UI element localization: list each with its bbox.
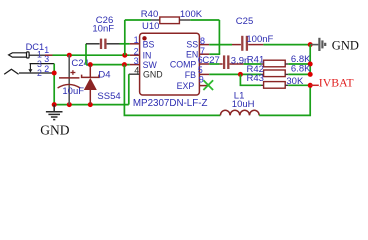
- svg-text:IVBAT: IVBAT: [319, 76, 355, 90]
- U10 pin 5 FB: [199, 73, 209, 75]
- svg-text:4: 4: [134, 65, 139, 75]
- node junction R42 GND: [308, 72, 313, 77]
- node junction C24 top: [67, 53, 72, 58]
- wire C26 left vertical: [85, 44, 87, 65]
- wire R40 loop right vertical to EN: [218, 20, 220, 54]
- node junction FB divider: [238, 72, 243, 77]
- svg-text:9: 9: [199, 74, 204, 84]
- svg-text:100K: 100K: [180, 9, 203, 20]
- svg-text:FB: FB: [185, 70, 196, 80]
- svg-text:2: 2: [44, 64, 49, 74]
- wire right GND column: [309, 45, 311, 75]
- U10 pin 6 COMP: [199, 63, 209, 65]
- svg-text:SW: SW: [143, 60, 158, 70]
- wire COMP row to C27: [209, 63, 219, 65]
- wire R41 to GND column: [288, 63, 310, 65]
- svg-text:C25: C25: [236, 16, 253, 27]
- node junction IN / R40 loop: [122, 53, 127, 58]
- wire EN row: [209, 53, 220, 55]
- U10 pin 7 EN: [199, 53, 209, 55]
- wire DC1 pin2/3 to ground vertical: [53, 64, 55, 105]
- svg-text:COMP: COMP: [170, 60, 197, 70]
- ground symbol top right: [310, 38, 325, 51]
- wire main input net DC1 to IN: [53, 54, 130, 56]
- wire R40 loop top left: [125, 19, 151, 21]
- svg-text:100nF: 100nF: [246, 34, 273, 45]
- node junction IVBAT: [308, 83, 313, 88]
- node junction D4 top: [88, 62, 93, 67]
- svg-text:GND: GND: [143, 70, 163, 80]
- svg-text:U10: U10: [142, 21, 159, 32]
- svg-text:D4: D4: [98, 70, 110, 81]
- capacitor C24 electrolytic: [58, 55, 81, 104]
- no-connect X on pin 9: [203, 80, 213, 90]
- wire GND pin down: [128, 74, 130, 104]
- svg-text:3: 3: [134, 56, 139, 66]
- capacitor C27: [220, 63, 244, 65]
- svg-text:EN: EN: [186, 50, 198, 60]
- svg-text:2: 2: [37, 68, 42, 78]
- svg-text:10uH: 10uH: [232, 99, 255, 110]
- node junction GND stem: [52, 102, 57, 107]
- wire L1 to output column: [259, 85, 310, 115]
- U10 pin 4 GND: [129, 73, 140, 75]
- wire SS row to C25: [209, 44, 232, 46]
- DC1 pin1 red pin stub: [45, 54, 53, 56]
- capacitor C25: [232, 44, 263, 46]
- svg-text:BS: BS: [143, 39, 155, 49]
- wire FB row: [209, 73, 261, 75]
- U10 pin 8 SS: [199, 44, 209, 46]
- resistor R43: [261, 82, 288, 89]
- wire R40 loop top right: [190, 19, 219, 21]
- svg-text:1: 1: [134, 35, 139, 45]
- IVBAT port stub: [310, 84, 319, 86]
- wire C26 right to BS pin: [120, 43, 130, 45]
- svg-text:R40: R40: [141, 9, 158, 20]
- U10 pin 1 BS: [130, 43, 140, 45]
- wire R42 to GND column: [288, 73, 310, 75]
- resistor R40: [151, 17, 190, 24]
- svg-text:GND: GND: [332, 39, 359, 53]
- svg-text:R43: R43: [247, 73, 264, 84]
- diode D4 SS54 schottky: [82, 65, 99, 105]
- resistor R41: [261, 60, 288, 67]
- svg-text:10uF: 10uF: [62, 86, 84, 97]
- inductor L1: [220, 110, 259, 115]
- U10 pin 3 SW: [130, 64, 140, 66]
- U10 pin 2 IN: [130, 54, 140, 56]
- resistor R42: [261, 70, 288, 77]
- svg-text:MP2307DN-LF-Z: MP2307DN-LF-Z: [133, 98, 208, 109]
- connector DC1 barrel jack symbol: [4, 52, 54, 74]
- svg-text:SS54: SS54: [97, 91, 120, 102]
- wire ground net bottom horizontal: [54, 104, 129, 106]
- wire R40 loop left vertical: [124, 20, 126, 55]
- node junction DC1 pin2: [52, 71, 57, 76]
- wire SW column down to inductor row: [124, 65, 220, 116]
- wire R43 to IVBAT node: [288, 84, 310, 86]
- svg-text:10nF: 10nF: [92, 23, 114, 34]
- svg-text:C27: C27: [202, 55, 219, 66]
- svg-text:EXP: EXP: [177, 81, 195, 91]
- node junction D4 bottom: [88, 102, 93, 107]
- svg-text:GND: GND: [40, 122, 69, 137]
- svg-text:SS: SS: [186, 40, 198, 50]
- node junction C24 bottom: [67, 102, 72, 107]
- U10 orientation dot: [142, 36, 146, 40]
- op-amp U10 MP2307 IC body: [140, 33, 200, 95]
- wire SW row from C26 leg to SW pin: [86, 64, 130, 66]
- U10 pin 9 EXP: [199, 85, 209, 87]
- wire FB down to R43 row: [240, 74, 261, 85]
- capacitor C26 bootstrap: [86, 43, 120, 45]
- wire C25 to GND junction: [263, 44, 310, 46]
- svg-text:8: 8: [200, 36, 205, 46]
- svg-text:6.8K: 6.8K: [291, 64, 311, 75]
- DC1 pin3 switch arrow: [28, 64, 32, 73]
- wire C27 to R41: [244, 63, 261, 65]
- node junction SW column: [122, 62, 127, 67]
- node junction R41 GND: [308, 62, 313, 67]
- ground symbol bottom left: [46, 105, 63, 120]
- node junction C25 GND: [308, 42, 313, 47]
